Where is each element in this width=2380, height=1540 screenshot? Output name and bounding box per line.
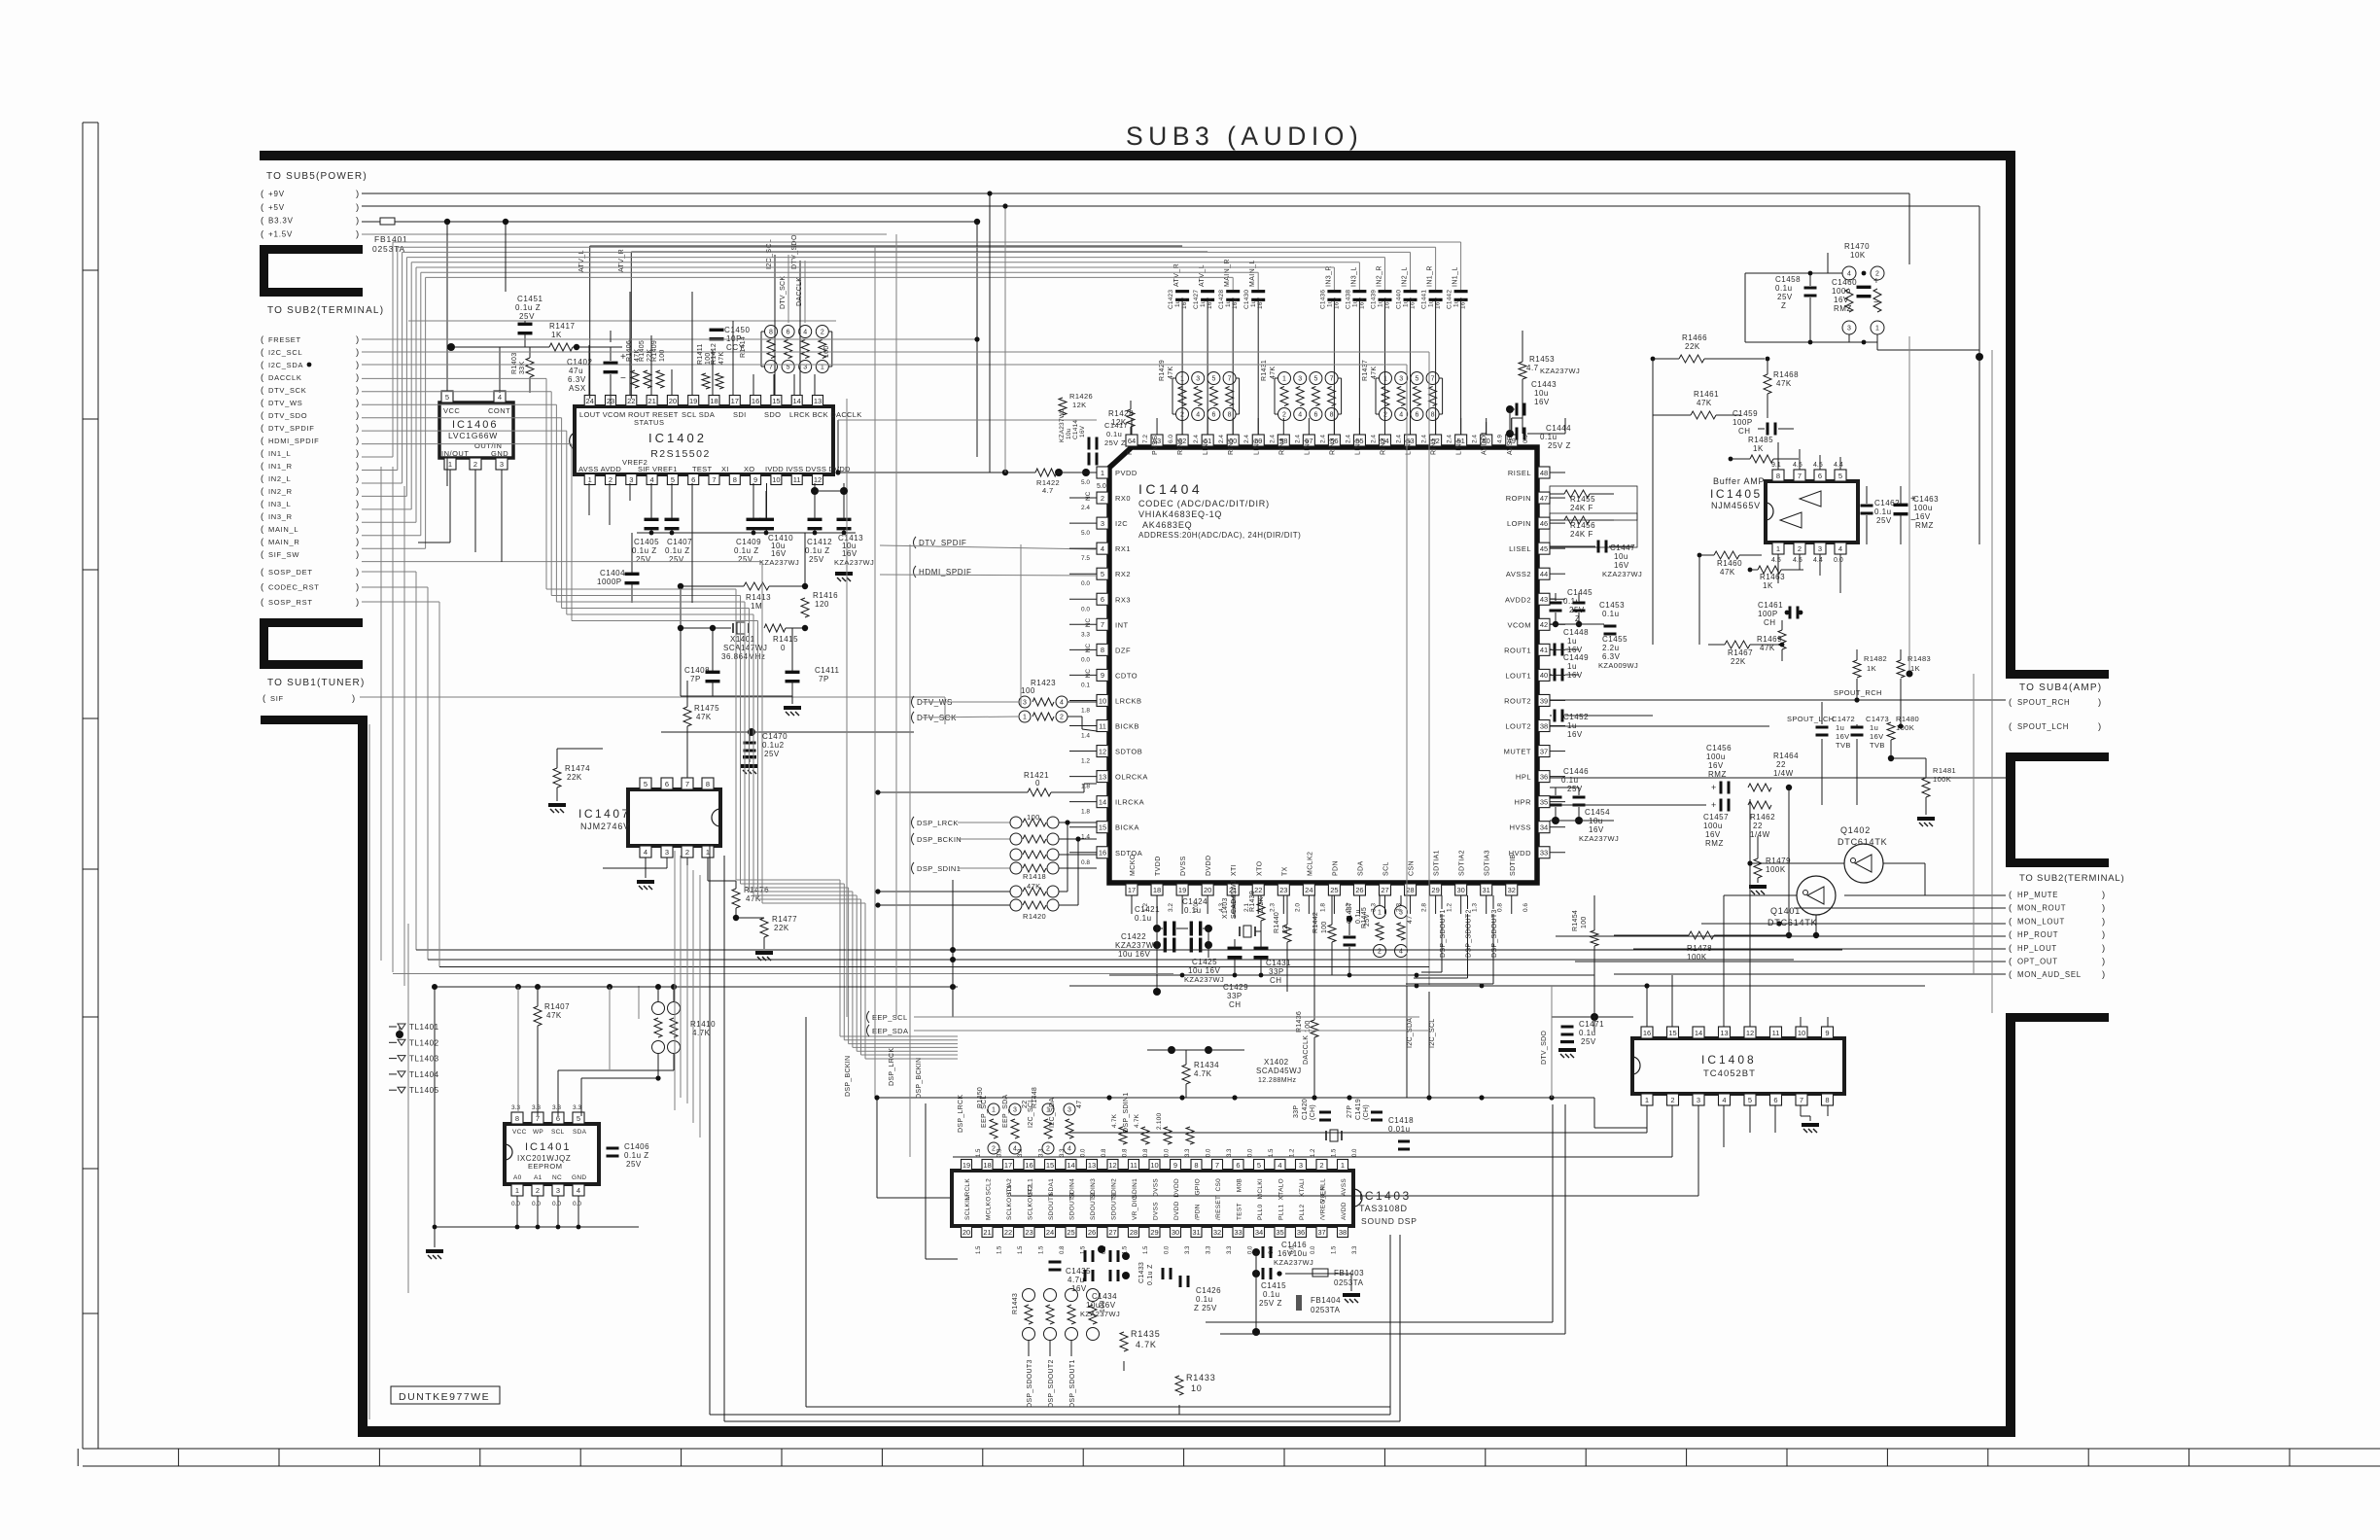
svg-text:2.4: 2.4 <box>1447 435 1453 443</box>
svg-text:Buffer AMP: Buffer AMP <box>1713 476 1765 486</box>
svg-text:ROPIN: ROPIN <box>1506 494 1531 503</box>
svg-text:1K: 1K <box>1763 581 1773 590</box>
svg-text:15: 15 <box>772 397 780 405</box>
svg-text:IN2_L: IN2_L <box>268 474 292 483</box>
svg-text:16V: 16V <box>1870 732 1884 741</box>
svg-text:SDTOB: SDTOB <box>1115 748 1142 756</box>
svg-text:CSN: CSN <box>1409 860 1416 876</box>
svg-text:100: 100 <box>1581 916 1588 928</box>
svg-text:C1406: C1406 <box>624 1142 649 1151</box>
svg-text:C1416: C1416 <box>1281 1241 1307 1249</box>
svg-text:3.3: 3.3 <box>552 1104 561 1111</box>
svg-text:0.0: 0.0 <box>1081 1148 1087 1157</box>
svg-text:16V: 16V <box>1358 297 1365 309</box>
svg-text:): ) <box>2102 890 2105 900</box>
svg-text:3: 3 <box>1101 519 1104 528</box>
svg-text:LRCK BCK DACCLK: LRCK BCK DACCLK <box>789 410 862 419</box>
svg-text:LISEL: LISEL <box>1509 544 1531 553</box>
svg-text:44: 44 <box>1540 570 1548 578</box>
svg-text:25V: 25V <box>626 1160 642 1169</box>
svg-text:CODEC_RST: CODEC_RST <box>268 583 320 592</box>
svg-text:R1485: R1485 <box>1748 436 1773 444</box>
svg-text:4.4: 4.4 <box>1813 557 1823 564</box>
svg-text:3.3: 3.3 <box>1081 631 1090 638</box>
svg-text:120: 120 <box>815 600 829 609</box>
svg-text:32: 32 <box>1213 1228 1221 1237</box>
svg-text:64: 64 <box>1128 437 1136 445</box>
svg-text:4.5: 4.5 <box>1813 462 1823 469</box>
svg-text:1: 1 <box>821 365 824 371</box>
svg-text:0253TA: 0253TA <box>1334 1278 1364 1287</box>
svg-text:1u: 1u <box>1567 662 1577 671</box>
svg-text:C1442: C1442 <box>1447 290 1453 309</box>
svg-text:5: 5 <box>787 365 790 371</box>
svg-text:14: 14 <box>1067 1161 1074 1170</box>
svg-text:SCLKOUT2: SCLKOUT2 <box>1028 1184 1034 1220</box>
svg-text:16V: 16V <box>1333 297 1340 309</box>
svg-text:): ) <box>356 423 359 434</box>
svg-text:C1405: C1405 <box>634 538 659 546</box>
svg-text:KZA237WJ: KZA237WJ <box>1602 570 1642 578</box>
svg-text:0.1u2: 0.1u2 <box>762 741 785 750</box>
svg-text:7: 7 <box>712 475 716 484</box>
svg-text:): ) <box>356 582 359 593</box>
svg-text:TO SUB5(POWER): TO SUB5(POWER) <box>266 171 367 182</box>
svg-text:3.3: 3.3 <box>1060 1148 1066 1157</box>
svg-text:): ) <box>356 486 359 497</box>
svg-text:0.0: 0.0 <box>1081 580 1090 587</box>
svg-text:HPR: HPR <box>1515 798 1531 807</box>
svg-text:R1455: R1455 <box>1570 495 1595 504</box>
svg-text:1.2: 1.2 <box>1142 903 1149 912</box>
svg-text:4: 4 <box>498 393 502 402</box>
svg-text:100: 100 <box>1100 1300 1106 1312</box>
svg-text:7: 7 <box>1431 376 1435 383</box>
svg-text:LOUT2: LOUT2 <box>1505 722 1531 731</box>
svg-text:DSP_BCKIN: DSP_BCKIN <box>917 835 962 844</box>
svg-text:47: 47 <box>1540 494 1548 503</box>
svg-text:0.8: 0.8 <box>1123 1148 1129 1157</box>
svg-text:R1468: R1468 <box>1773 370 1799 379</box>
svg-text:25V: 25V <box>1876 516 1892 525</box>
svg-text:1u: 1u <box>1225 299 1232 307</box>
svg-text:4: 4 <box>803 330 807 336</box>
svg-text:AVSS: AVSS <box>1341 1178 1347 1196</box>
svg-text:): ) <box>2102 903 2105 914</box>
svg-text:C1415: C1415 <box>1261 1281 1286 1290</box>
svg-text:27: 27 <box>1381 886 1388 894</box>
svg-text:XTO: XTO <box>1256 860 1263 876</box>
svg-text:C1458: C1458 <box>1775 275 1801 284</box>
svg-text:HVSS: HVSS <box>1510 823 1531 832</box>
svg-text:INT: INT <box>1115 620 1129 629</box>
svg-text:PLL1: PLL1 <box>1278 1205 1285 1220</box>
svg-text:R1417: R1417 <box>549 322 576 331</box>
svg-text:5: 5 <box>577 1114 580 1123</box>
svg-text:24K F: 24K F <box>1570 530 1593 539</box>
svg-text:3.3: 3.3 <box>532 1104 541 1111</box>
svg-text:IN3_R: IN3_R <box>268 512 293 521</box>
svg-text:NJM2746V: NJM2746V <box>580 822 630 831</box>
svg-text:26: 26 <box>1088 1228 1096 1237</box>
svg-text:7P: 7P <box>690 675 701 683</box>
svg-text:1.4: 1.4 <box>1081 834 1090 841</box>
svg-text:HP_MUTE: HP_MUTE <box>2017 891 2058 899</box>
svg-text:3: 3 <box>1067 1107 1071 1114</box>
svg-text:+5V: +5V <box>268 203 285 212</box>
svg-text:4: 4 <box>1838 544 1842 553</box>
svg-text:IN1_L: IN1_L <box>268 449 292 458</box>
svg-text:3.3: 3.3 <box>1185 1148 1191 1157</box>
svg-text:TEST: TEST <box>1237 1203 1243 1220</box>
svg-text:1.4: 1.4 <box>1081 733 1090 740</box>
svg-text:C1411: C1411 <box>815 666 840 675</box>
svg-text:1u: 1u <box>1200 299 1207 307</box>
svg-text:GND: GND <box>572 1174 586 1181</box>
svg-text:30: 30 <box>1456 886 1464 894</box>
svg-text:0.0: 0.0 <box>1311 1245 1316 1254</box>
svg-text:12.288MHz: 12.288MHz <box>1258 1077 1296 1084</box>
svg-text:0.1u: 0.1u <box>1775 284 1793 293</box>
svg-text:4: 4 <box>650 475 654 484</box>
svg-text:−: − <box>620 373 626 384</box>
svg-text:R1445: R1445 <box>1361 907 1368 928</box>
svg-text:R1437: R1437 <box>1362 360 1369 381</box>
svg-text:18: 18 <box>983 1161 991 1170</box>
svg-text:SOSP_RST: SOSP_RST <box>268 598 313 607</box>
svg-text:3: 3 <box>665 848 669 857</box>
svg-text:25V: 25V <box>1581 1037 1596 1046</box>
svg-text:C1404: C1404 <box>600 569 625 577</box>
svg-text:): ) <box>2102 957 2105 967</box>
svg-text:25V Z: 25V Z <box>1104 438 1126 447</box>
svg-text:LRCKB: LRCKB <box>1115 696 1142 705</box>
svg-text:25V: 25V <box>764 750 780 758</box>
svg-text:X1402: X1402 <box>1264 1058 1289 1067</box>
svg-text:2: 2 <box>821 330 824 336</box>
svg-text:LOPIN: LOPIN <box>1507 519 1531 528</box>
svg-text:): ) <box>2102 916 2105 927</box>
svg-text:6: 6 <box>1211 412 1215 419</box>
svg-text:DSP_SDOUT3: DSP_SDOUT3 <box>1027 1359 1033 1408</box>
svg-text:): ) <box>356 398 359 408</box>
svg-text:R1443: R1443 <box>1012 1293 1019 1314</box>
svg-text:2.100: 2.100 <box>1156 1113 1163 1130</box>
svg-text:7.5: 7.5 <box>1081 555 1090 562</box>
svg-text:): ) <box>356 372 359 383</box>
svg-text:DTV_SPDIF: DTV_SPDIF <box>268 424 315 433</box>
svg-text:LIN6: LIN6 <box>1203 439 1209 455</box>
svg-text:6: 6 <box>1773 1096 1777 1104</box>
svg-text:PVSS: PVSS <box>1152 436 1159 455</box>
svg-text:R1461: R1461 <box>1694 390 1719 399</box>
svg-text:8: 8 <box>769 330 773 336</box>
svg-text:1: 1 <box>1341 1161 1345 1170</box>
svg-text:12: 12 <box>1108 1161 1116 1170</box>
svg-text:R1477: R1477 <box>772 915 797 924</box>
svg-text:1.2: 1.2 <box>1081 758 1090 765</box>
svg-text:16V: 16V <box>1708 761 1724 770</box>
svg-text:(CH): (CH) <box>1310 1104 1316 1120</box>
svg-text:TO SUB1(TUNER): TO SUB1(TUNER) <box>267 678 366 688</box>
svg-text:R1460: R1460 <box>1717 559 1742 568</box>
svg-text:): ) <box>2102 969 2105 980</box>
svg-text:47K: 47K <box>1168 367 1174 379</box>
svg-text:R1476: R1476 <box>744 886 769 894</box>
svg-text:CH: CH <box>1738 427 1751 436</box>
svg-text:RMZ: RMZ <box>1834 304 1852 313</box>
svg-text:23: 23 <box>1279 886 1287 894</box>
svg-text:2.4: 2.4 <box>1345 435 1351 443</box>
svg-text:R1436: R1436 <box>1296 1011 1303 1032</box>
svg-text:LIN4: LIN4 <box>1304 439 1311 455</box>
svg-text:25V Z: 25V Z <box>1259 1299 1282 1308</box>
svg-text:I2C_SCL: I2C_SCL <box>268 348 302 357</box>
svg-text:1.5: 1.5 <box>1143 1245 1149 1254</box>
svg-text:0.1u Z: 0.1u Z <box>1147 1264 1154 1285</box>
svg-text:100K: 100K <box>1896 723 1914 732</box>
svg-text:17: 17 <box>1128 886 1136 894</box>
svg-text:): ) <box>356 448 359 459</box>
svg-text:R1434: R1434 <box>1194 1061 1219 1069</box>
svg-text:C1425: C1425 <box>1192 958 1217 966</box>
svg-text:9: 9 <box>753 475 757 484</box>
svg-text:TVDD: TVDD <box>1155 856 1162 876</box>
svg-text:36: 36 <box>1540 772 1548 781</box>
svg-text:0.8: 0.8 <box>1143 1148 1149 1157</box>
svg-text:C1412: C1412 <box>807 538 832 546</box>
svg-text:SDTIA2: SDTIA2 <box>1459 850 1466 876</box>
svg-text:R1442: R1442 <box>1312 912 1319 933</box>
svg-text:2.0: 2.0 <box>1294 903 1301 912</box>
svg-text:SCL: SCL <box>1383 861 1390 876</box>
svg-text:35: 35 <box>1540 797 1548 806</box>
svg-text:1.8: 1.8 <box>1081 809 1090 816</box>
svg-text:4.7K: 4.7K <box>1136 1340 1157 1349</box>
svg-text:4.9: 4.9 <box>1497 435 1504 443</box>
svg-text:DTV_WS: DTV_WS <box>268 399 302 407</box>
svg-text:AVDD: AVDD <box>1341 1202 1347 1220</box>
svg-text:37: 37 <box>1540 747 1548 755</box>
svg-text:RIN2: RIN2 <box>1381 437 1387 455</box>
svg-text:25V: 25V <box>669 555 684 564</box>
svg-text:DTV_SDO: DTV_SDO <box>1541 1031 1548 1065</box>
svg-text:): ) <box>356 461 359 472</box>
svg-text:47K: 47K <box>696 713 712 721</box>
svg-text:C1407: C1407 <box>667 538 692 546</box>
svg-text:12K: 12K <box>1072 401 1087 409</box>
svg-text:SDOUT3: SDOUT3 <box>1069 1193 1076 1220</box>
svg-text:X1401: X1401 <box>730 635 755 644</box>
svg-text:13: 13 <box>1099 772 1106 781</box>
svg-text:100: 100 <box>1021 686 1035 695</box>
svg-text:10u 16V: 10u 16V <box>1188 966 1220 975</box>
svg-text:10: 10 <box>1798 1029 1805 1037</box>
svg-text:R1411: R1411 <box>697 343 704 365</box>
svg-text:SCL SDA: SCL SDA <box>682 410 715 419</box>
svg-text:6: 6 <box>691 475 695 484</box>
svg-text:0: 0 <box>1035 779 1040 787</box>
svg-text:KZA237WJ: KZA237WJ <box>1059 409 1066 442</box>
svg-text:+: + <box>1711 800 1716 810</box>
svg-text:3: 3 <box>500 460 504 469</box>
svg-text:0.0: 0.0 <box>1081 656 1090 663</box>
svg-text:TAS3108D: TAS3108D <box>1359 1204 1408 1213</box>
svg-text:DZF: DZF <box>1115 646 1131 654</box>
svg-text:ASX: ASX <box>569 384 586 393</box>
svg-text:A1: A1 <box>534 1174 542 1181</box>
svg-text:CH: CH <box>1270 976 1282 985</box>
svg-text:1K: 1K <box>1867 664 1876 673</box>
svg-text:KZA237WJ: KZA237WJ <box>1540 367 1580 375</box>
svg-text:7: 7 <box>1798 472 1802 480</box>
svg-text:0.0: 0.0 <box>1165 1148 1171 1157</box>
svg-text:ROUT1: ROUT1 <box>1504 646 1531 654</box>
svg-text:31: 31 <box>1192 1228 1200 1237</box>
svg-text:25V: 25V <box>519 312 535 321</box>
svg-text:4: 4 <box>1399 412 1403 419</box>
svg-text:IN3_L: IN3_L <box>268 500 292 508</box>
svg-text:1: 1 <box>1282 376 1286 383</box>
svg-text:SUB3 (AUDIO): SUB3 (AUDIO) <box>1126 122 1363 151</box>
svg-text:16V: 16V <box>842 549 857 558</box>
svg-text:18: 18 <box>1153 886 1161 894</box>
svg-text:IC1404: IC1404 <box>1138 481 1203 497</box>
svg-text:0.1u Z: 0.1u Z <box>805 546 830 555</box>
svg-text:): ) <box>2098 697 2101 708</box>
svg-text:Z 25V: Z 25V <box>1194 1304 1217 1312</box>
svg-text:(CH): (CH) <box>1363 1104 1370 1120</box>
svg-text:2.8: 2.8 <box>1421 903 1428 912</box>
svg-text:): ) <box>356 436 359 446</box>
svg-text:17: 17 <box>731 397 739 405</box>
svg-text:2: 2 <box>609 475 612 484</box>
svg-text:1.5: 1.5 <box>1332 1148 1338 1157</box>
svg-text:27P: 27P <box>1347 1105 1353 1118</box>
svg-text:1.5: 1.5 <box>1018 1245 1024 1254</box>
svg-text:C1446: C1446 <box>1563 767 1589 776</box>
svg-text:9: 9 <box>1173 1161 1177 1170</box>
svg-text:11: 11 <box>1099 721 1106 730</box>
svg-text:5: 5 <box>1313 376 1317 383</box>
svg-text:): ) <box>356 567 359 577</box>
svg-text:MON_LOUT: MON_LOUT <box>2017 917 2065 926</box>
svg-text:R1418: R1418 <box>1023 872 1046 881</box>
svg-text:22: 22 <box>1022 1101 1029 1108</box>
svg-text:R1428: R1428 <box>1108 409 1134 418</box>
svg-text:0.1u: 0.1u <box>1263 1290 1280 1299</box>
svg-text:29: 29 <box>1150 1228 1158 1237</box>
svg-text:): ) <box>356 473 359 484</box>
svg-text:LOUT1: LOUT1 <box>1505 671 1531 680</box>
svg-text:SCLKIN: SCLKIN <box>964 1196 971 1220</box>
svg-text:3.3: 3.3 <box>573 1104 581 1111</box>
svg-text:7.2: 7.2 <box>1142 435 1149 443</box>
svg-text:1: 1 <box>1776 544 1780 553</box>
svg-text:0.1u: 0.1u <box>1579 1029 1596 1037</box>
svg-text:C1470: C1470 <box>762 732 787 741</box>
svg-text:16V: 16V <box>1836 732 1850 741</box>
svg-text:R1483: R1483 <box>1907 654 1931 663</box>
svg-text:16V: 16V <box>1257 297 1264 309</box>
svg-text:0.0: 0.0 <box>1248 1148 1254 1157</box>
svg-text:1.5: 1.5 <box>976 1148 982 1157</box>
svg-text:0.9: 0.9 <box>1522 435 1529 443</box>
svg-text:): ) <box>356 597 359 608</box>
svg-text:47K: 47K <box>1720 568 1735 577</box>
svg-text:22K: 22K <box>774 924 789 932</box>
svg-text:1.2: 1.2 <box>1311 1148 1316 1157</box>
svg-text:25V: 25V <box>1777 293 1793 301</box>
svg-text:KZA237WJ: KZA237WJ <box>834 558 874 567</box>
svg-text:0.1: 0.1 <box>1081 682 1090 688</box>
svg-text:3.2: 3.2 <box>1345 903 1351 912</box>
svg-text:45: 45 <box>1540 544 1548 553</box>
svg-text:6: 6 <box>1101 595 1104 604</box>
svg-text:R1429: R1429 <box>1159 360 1166 381</box>
svg-text:+: + <box>1711 783 1716 792</box>
svg-text:4.5: 4.5 <box>1793 557 1802 564</box>
svg-text:8: 8 <box>1194 1161 1198 1170</box>
svg-text:RIN3: RIN3 <box>1329 437 1336 455</box>
svg-text:1u: 1u <box>1351 299 1358 307</box>
svg-text:25V: 25V <box>636 555 651 564</box>
svg-text:1u: 1u <box>1870 723 1878 732</box>
svg-text:6: 6 <box>665 780 669 788</box>
svg-text:I2C_SDA: I2C_SDA <box>268 361 303 369</box>
svg-text:SIF_SW: SIF_SW <box>268 550 299 559</box>
svg-text:0.0: 0.0 <box>1081 606 1090 612</box>
svg-text:5: 5 <box>671 475 675 484</box>
svg-text:BICKA: BICKA <box>1115 823 1139 832</box>
svg-text:R1409: R1409 <box>651 340 658 362</box>
svg-text:9: 9 <box>1825 1029 1829 1037</box>
svg-text:C1417: C1417 <box>1104 421 1128 430</box>
svg-text:SPOUT_LCH: SPOUT_LCH <box>2017 722 2069 731</box>
svg-text:15: 15 <box>1046 1161 1054 1170</box>
svg-text:5: 5 <box>1101 570 1104 578</box>
svg-text:2: 2 <box>1319 1161 1323 1170</box>
svg-text:SDTIA3: SDTIA3 <box>1485 850 1491 876</box>
svg-text:5: 5 <box>1257 1161 1261 1170</box>
svg-text:21: 21 <box>647 397 655 405</box>
svg-text:C1445: C1445 <box>1567 588 1592 597</box>
svg-text:DSP_BCKIN: DSP_BCKIN <box>845 1056 852 1097</box>
svg-text:2: 2 <box>992 1146 996 1153</box>
svg-text:): ) <box>356 347 359 358</box>
svg-text:100K: 100K <box>1687 953 1707 962</box>
svg-text:C1448: C1448 <box>1563 628 1589 637</box>
svg-text:C1450: C1450 <box>724 326 751 334</box>
svg-text:2.4: 2.4 <box>1294 435 1301 443</box>
svg-text:+: + <box>1910 494 1916 505</box>
svg-text:2.4: 2.4 <box>1472 435 1479 443</box>
svg-text:16: 16 <box>1643 1029 1651 1037</box>
svg-text:16V: 16V <box>1589 825 1604 834</box>
svg-text:/PDN: /PDN <box>1195 1204 1202 1220</box>
svg-text:/VREG_EN: /VREG_EN <box>1320 1186 1327 1220</box>
svg-text:TEST: TEST <box>692 465 712 473</box>
svg-text:16V: 16V <box>1534 398 1550 406</box>
svg-text:22: 22 <box>1776 760 1786 769</box>
svg-text:DSP_SDOUT3: DSP_SDOUT3 <box>1491 909 1498 958</box>
svg-text:10K: 10K <box>1850 251 1866 260</box>
svg-text:MON_ROUT: MON_ROUT <box>2017 904 2066 913</box>
svg-text:TO SUB4(AMP): TO SUB4(AMP) <box>2019 682 2102 693</box>
svg-text:10: 10 <box>772 475 780 484</box>
svg-text:19: 19 <box>962 1161 970 1170</box>
svg-text:15: 15 <box>1099 823 1106 832</box>
